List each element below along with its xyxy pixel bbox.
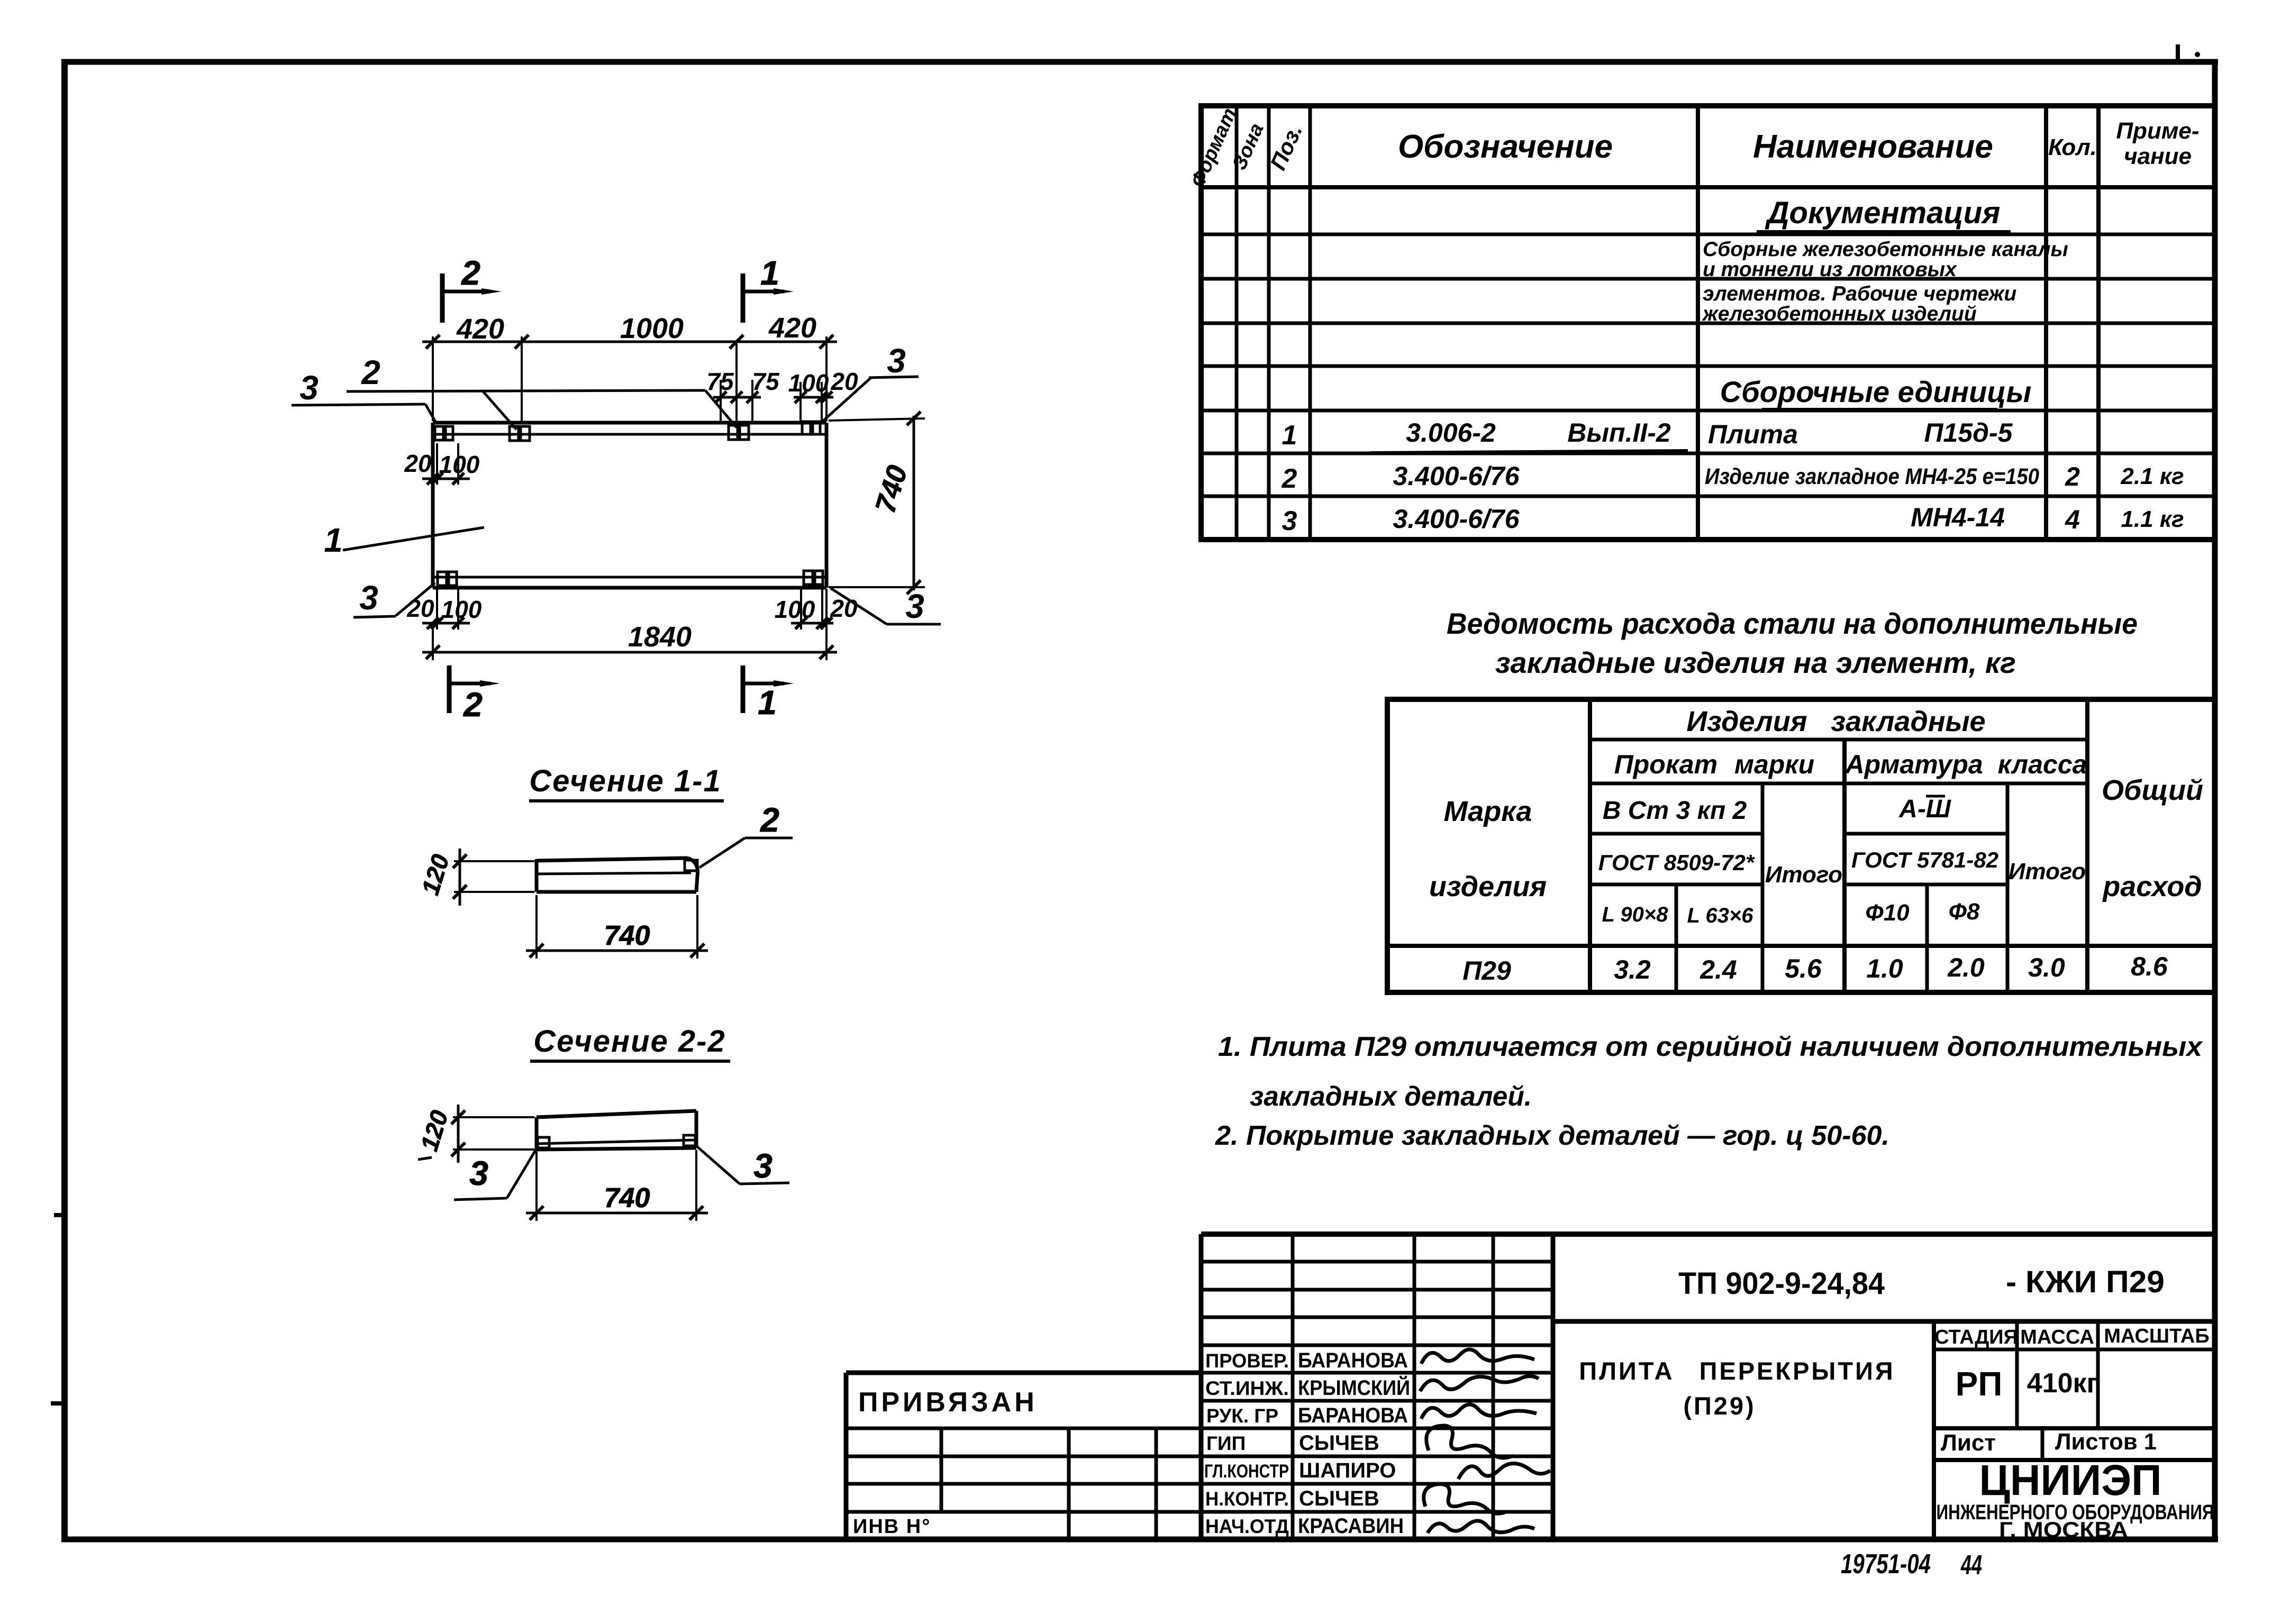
spec table header texts [1187, 105, 2200, 190]
svg-text:Плита: Плита [1708, 419, 1798, 449]
svg-text:ГИП: ГИП [1206, 1433, 1246, 1454]
svg-text:1: 1 [760, 254, 779, 292]
section 2-2 leader 3 left [454, 1147, 538, 1200]
svg-text:100: 100 [439, 451, 480, 478]
svg-text:3: 3 [299, 369, 319, 407]
svg-text:ПРОВЕР.: ПРОВЕР. [1205, 1350, 1289, 1372]
steel table header texts [1429, 706, 2203, 927]
spec table row 3 [1282, 503, 2184, 536]
svg-text:Арматура класса: Арматура класса [1844, 750, 2087, 779]
svg-text:3.400-6/76: 3.400-6/76 [1393, 461, 1520, 491]
svg-text:СТАДИЯ: СТАДИЯ [1934, 1326, 2018, 1348]
svg-text:РУК. ГР: РУК. ГР [1206, 1405, 1278, 1427]
svg-text:Наименование: Наименование [1753, 129, 1993, 165]
svg-text:410кг: 410кг [2027, 1368, 2098, 1399]
svg-text:изделия: изделия [1429, 871, 1547, 902]
svg-text:Лист: Лист [1941, 1430, 1996, 1456]
svg-text:1.1 кг: 1.1 кг [2121, 506, 2184, 532]
svg-text:ПЛИТА ПЕРЕКРЫТИЯ: ПЛИТА ПЕРЕКРЫТИЯ [1579, 1357, 1895, 1385]
svg-text:МАССА: МАССА [2020, 1326, 2094, 1348]
section mark 2 bottom [449, 665, 500, 724]
svg-text:Изделие закладное МН4-25 е=150: Изделие закладное МН4-25 е=150 [1705, 464, 2039, 489]
title block grid [846, 1234, 2215, 1539]
notes text [1215, 1032, 2203, 1151]
svg-text:Общий: Общий [2102, 774, 2203, 806]
svg-text:Сечение 1-1: Сечение 1-1 [529, 764, 721, 798]
svg-text:РП: РП [1956, 1365, 2003, 1403]
svg-text:БАРАНОВА: БАРАНОВА [1298, 1404, 1408, 1427]
svg-text:20: 20 [830, 595, 858, 622]
svg-text:2: 2 [760, 801, 779, 839]
dimension 100 20 bottom-right [775, 587, 858, 629]
svg-text:20: 20 [406, 595, 434, 622]
svg-text:20: 20 [830, 368, 858, 395]
svg-text:ГОСТ 8509-72*: ГОСТ 8509-72* [1598, 850, 1755, 875]
title block name [1579, 1357, 1895, 1420]
svg-text:В Ст 3 кп 2: В Ст 3 кп 2 [1603, 797, 1747, 825]
svg-text:Ведомость расхода стали на: Ведомость расхода стали на дополнительны… [1447, 607, 2138, 640]
svg-text:2: 2 [361, 353, 380, 391]
plan view plate outline [433, 423, 826, 588]
leader pos2 [347, 353, 737, 430]
dimension 20 100 bottom-left [406, 589, 481, 629]
svg-text:- КЖИ П29: - КЖИ П29 [2006, 1265, 2165, 1299]
title block stage cells [1934, 1325, 2210, 1456]
section 2-2 dimension 120 [415, 1105, 534, 1163]
svg-text:100: 100 [775, 596, 815, 623]
svg-text:ТП 902-9-24,84: ТП 902-9-24,84 [1678, 1266, 1885, 1301]
svg-text:МАСШТАБ: МАСШТАБ [2104, 1325, 2209, 1347]
spec table row 1 [1282, 418, 2013, 453]
svg-text:Итого: Итого [2009, 859, 2086, 884]
svg-text:закладных деталей.: закладных деталей. [1250, 1081, 1532, 1112]
svg-text:2: 2 [2065, 462, 2080, 491]
svg-text:740: 740 [604, 920, 650, 951]
svg-text:Прокат марки: Прокат марки [1614, 750, 1814, 779]
signature table labels [1204, 1350, 1289, 1537]
svg-text:75: 75 [706, 368, 734, 395]
section 2-2 plate body [537, 1111, 696, 1149]
embed plates pos3 top-left [435, 426, 453, 440]
svg-text:Вып.II-2: Вып.II-2 [1567, 418, 1671, 448]
svg-text:СЫЧЕВ: СЫЧЕВ [1299, 1431, 1379, 1455]
leader pos3 bottom-left [353, 579, 435, 617]
svg-text:и тоннели из лотковых: и тоннели из лотковых [1703, 258, 1957, 281]
svg-text:Г. МОСКВА: Г. МОСКВА [1999, 1517, 2128, 1542]
signatures scribbles [1420, 1349, 1550, 1533]
svg-text:Ф10: Ф10 [1865, 900, 1910, 926]
svg-text:2: 2 [461, 254, 480, 292]
svg-text:1.0: 1.0 [1866, 954, 1903, 983]
svg-text:ШАПИРО: ШАПИРО [1299, 1459, 1396, 1482]
svg-text:3: 3 [359, 579, 378, 617]
spec table grid [1201, 106, 2215, 540]
section 1-1 dimension 740 [526, 895, 708, 959]
dimension 100 20 top-right [788, 368, 858, 423]
embed plates pos3 bottom-left [438, 572, 457, 586]
svg-text:100: 100 [788, 369, 829, 397]
svg-text:ГЛ.КОНСТР: ГЛ.КОНСТР [1204, 1461, 1289, 1482]
svg-text:L 90×8: L 90×8 [1602, 903, 1669, 926]
svg-text:1: 1 [758, 683, 777, 722]
svg-text:расход: расход [2102, 871, 2202, 902]
svg-text:4: 4 [2065, 505, 2080, 534]
svg-text:2. Покрытие закладных детале: 2. Покрытие закладных деталей — гор. ц 5… [1215, 1120, 1889, 1151]
leader pos3 top-left [292, 369, 436, 423]
svg-text:1840: 1840 [628, 621, 692, 653]
section 2-2 dimension 740 [526, 1150, 708, 1221]
svg-text:А-Ш: А-Ш [1898, 795, 1951, 823]
leader pos3 bottom-right [831, 587, 941, 625]
svg-text:МН4-14: МН4-14 [1911, 503, 2005, 532]
embed plates pos2 left [510, 426, 530, 441]
svg-text:Сборочные единицы: Сборочные единицы [1720, 375, 2032, 408]
svg-text:75: 75 [752, 368, 780, 395]
svg-text:закладные изделия на элемен: закладные изделия на элемент, кг [1495, 646, 2016, 679]
svg-text:420: 420 [456, 313, 504, 345]
svg-text:2: 2 [1282, 463, 1297, 494]
svg-text:Листов 1: Листов 1 [2055, 1429, 2157, 1455]
section 1-1 plate body [537, 858, 698, 892]
svg-text:2.1 кг: 2.1 кг [2120, 463, 2184, 489]
embed plates pos3 bottom-right [804, 571, 823, 585]
dimension 1840 [422, 589, 837, 660]
svg-text:КРЫМСКИЙ: КРЫМСКИЙ [1298, 1375, 1410, 1400]
svg-text:Приме-: Приме- [2116, 118, 2199, 144]
svg-text:Документация: Документация [1765, 196, 2001, 230]
leader pos1 plate [324, 521, 484, 559]
leader pos3 top-right [822, 342, 919, 422]
svg-text:5.6: 5.6 [1785, 954, 1822, 983]
steel list title [1447, 607, 2138, 679]
doc number bottom [1841, 1549, 1982, 1581]
svg-text:3.006-2: 3.006-2 [1406, 418, 1496, 448]
svg-text:чание: чание [2124, 143, 2192, 169]
svg-text:1: 1 [324, 521, 343, 559]
svg-text:740: 740 [604, 1183, 650, 1214]
svg-text:3: 3 [753, 1147, 773, 1185]
svg-text:(П29): (П29) [1683, 1392, 1756, 1420]
section mark 1 bottom [743, 665, 794, 722]
top dimension labels [456, 312, 816, 345]
spec table section title Сборочные единицы [1720, 375, 2032, 409]
svg-text:1. Плита П29 отличается от: 1. Плита П29 отличается от серийной нали… [1218, 1032, 2203, 1062]
svg-text:3: 3 [887, 342, 906, 380]
svg-text:Сечение 2-2: Сечение 2-2 [533, 1024, 725, 1059]
svg-text:Кол.: Кол. [2048, 134, 2097, 160]
svg-text:ИНВ Н°: ИНВ Н° [853, 1516, 931, 1538]
dimension 75 75 [706, 368, 780, 422]
svg-text:44: 44 [1960, 1550, 1982, 1581]
svg-text:КРАСАВИН: КРАСАВИН [1298, 1514, 1404, 1538]
title block left texts [853, 1387, 1038, 1538]
svg-text:1: 1 [1282, 420, 1297, 451]
section 1-1 title [529, 764, 724, 801]
svg-text:СТ.ИНЖ.: СТ.ИНЖ. [1205, 1377, 1289, 1399]
svg-text:3: 3 [1282, 506, 1297, 536]
svg-text:железобетонных изделий: железобетонных изделий [1702, 303, 1977, 325]
svg-text:Н.КОНТР.: Н.КОНТР. [1205, 1488, 1289, 1510]
svg-text:2.0: 2.0 [1947, 953, 1985, 982]
section 1-1 leader 2 [699, 801, 793, 868]
svg-text:элементов. Рабочие чертежи: элементов. Рабочие чертежи [1703, 282, 2016, 305]
svg-text:Ф8: Ф8 [1949, 899, 1980, 925]
section 2-2 leader 3 right [697, 1147, 789, 1185]
dimension 740 right [829, 412, 925, 594]
spec table section title Документация [1757, 196, 2011, 232]
svg-text:Обозначение: Обозначение [1398, 129, 1613, 165]
svg-text:19751-04: 19751-04 [1841, 1549, 1931, 1580]
svg-text:420: 420 [768, 312, 816, 344]
svg-text:100: 100 [441, 596, 482, 623]
svg-text:ПРИВЯЗАН: ПРИВЯЗАН [858, 1387, 1038, 1418]
svg-text:8.6: 8.6 [2131, 952, 2168, 981]
title block org [1937, 1456, 2214, 1542]
svg-text:БАРАНОВА: БАРАНОВА [1298, 1349, 1408, 1372]
svg-text:3: 3 [469, 1154, 488, 1192]
svg-text:3.2: 3.2 [1614, 955, 1651, 984]
svg-text:2: 2 [463, 686, 483, 724]
spec table row 2 [1282, 461, 2184, 494]
title block designation [1678, 1265, 2165, 1301]
section mark 1 top [743, 254, 794, 323]
svg-text:3.400-6/76: 3.400-6/76 [1393, 504, 1520, 534]
svg-text:П29: П29 [1462, 956, 1511, 986]
svg-text:П15д-5: П15д-5 [1924, 418, 2013, 448]
svg-text:Итого: Итого [1765, 862, 1842, 888]
steel table grid [1387, 699, 2215, 992]
top dimension 420 1000 420 [422, 335, 837, 424]
svg-text:3.0: 3.0 [2028, 953, 2065, 982]
svg-text:Сборные железобетонные каналы: Сборные железобетонные каналы [1703, 238, 2068, 261]
section 2-2 title [530, 1024, 730, 1061]
svg-text:20: 20 [404, 450, 432, 477]
section mark 2 top [442, 254, 502, 323]
spec table doc rows text [1702, 238, 2068, 325]
section 1-1 dimension 120 [416, 849, 534, 906]
svg-text:1000: 1000 [620, 313, 684, 344]
svg-text:Изделия закладные: Изделия закладные [1686, 706, 1985, 737]
svg-text:Марка: Марка [1444, 796, 1532, 827]
svg-text:L 63×6: L 63×6 [1687, 904, 1754, 927]
embed plates pos2 right [729, 425, 749, 440]
svg-text:ГОСТ 5781-82: ГОСТ 5781-82 [1851, 847, 1998, 872]
svg-text:ЦНИИЭП: ЦНИИЭП [1979, 1456, 2162, 1504]
dimension 20 100 upper-left [404, 443, 479, 485]
embed plates pos3 top-right [802, 422, 820, 434]
svg-text:2.4: 2.4 [1700, 955, 1737, 984]
signature table names [1298, 1349, 1410, 1538]
svg-text:НАЧ.ОТД: НАЧ.ОТД [1205, 1516, 1289, 1537]
steel table data row [1462, 952, 2168, 986]
svg-text:СЫЧЕВ: СЫЧЕВ [1299, 1487, 1379, 1510]
